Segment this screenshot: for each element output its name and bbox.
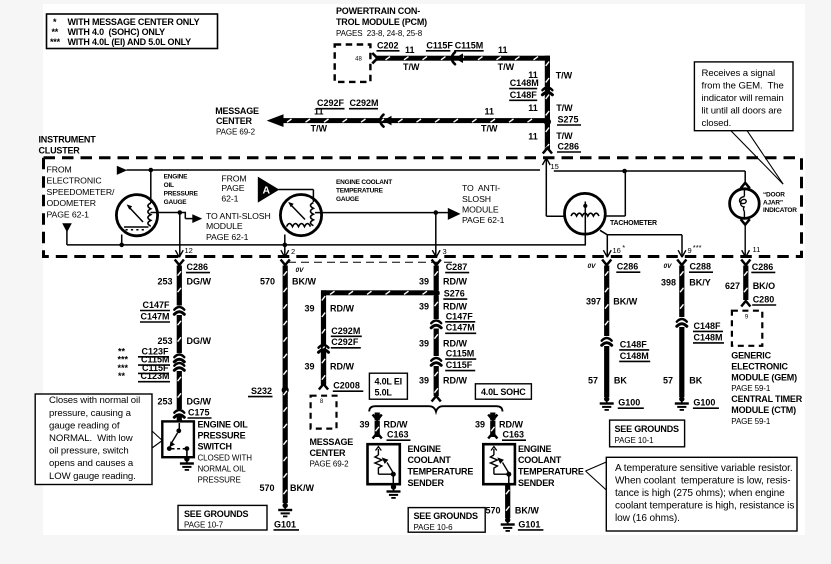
sender bottom (right) xyxy=(494,473,509,475)
svg-text:16: 16 xyxy=(613,246,621,255)
wire oil gauge output xyxy=(151,212,180,214)
svg-text:C123M: C123M xyxy=(140,371,169,381)
svg-text:SLOSH: SLOSH xyxy=(462,194,491,204)
splice S232 xyxy=(282,386,289,393)
see grounds 10-6 box xyxy=(408,508,485,533)
svg-text:closed.: closed. xyxy=(702,118,732,129)
svg-text:oil pressure, switch: oil pressure, switch xyxy=(49,446,129,457)
cluster bottom bus wire xyxy=(67,244,586,246)
svg-text:PAGE 10-1: PAGE 10-1 xyxy=(615,436,655,445)
svg-text:WITH MESSAGE CENTER ONLY: WITH MESSAGE CENTER ONLY xyxy=(68,17,200,27)
secondary thin dashed line xyxy=(288,261,456,263)
wire end flare at brace xyxy=(432,396,441,402)
wire tach top horizontal xyxy=(554,170,745,172)
svg-text:5.0L: 5.0L xyxy=(375,387,393,397)
wire 253 DG/W seg3 xyxy=(177,371,182,409)
svg-text:SEE GROUNDS: SEE GROUNDS xyxy=(615,424,680,434)
svg-text:MESSAGE: MESSAGE xyxy=(215,106,259,116)
wire 253 DG/W seg2 xyxy=(177,315,182,353)
wire S276 branch horizontal xyxy=(321,290,436,295)
svg-text:RD/W: RD/W xyxy=(330,362,354,372)
speedo return triangle xyxy=(62,223,72,232)
svg-text:C175: C175 xyxy=(188,407,210,417)
svg-text:S232: S232 xyxy=(251,386,272,396)
wire coolant output to pin 3 xyxy=(435,213,437,258)
switch dashed link xyxy=(172,448,186,450)
svg-text:0V: 0V xyxy=(664,263,673,270)
ground G101 (right sender) xyxy=(505,517,510,522)
svg-text:**: ** xyxy=(118,371,126,381)
message center arrow xyxy=(267,114,284,127)
svg-text:C115F: C115F xyxy=(426,40,453,50)
node oil output xyxy=(178,210,183,215)
door ajar lamp flare top xyxy=(741,183,750,189)
svg-text:570: 570 xyxy=(260,276,275,286)
oil gauge bottom terminal wire xyxy=(121,235,123,245)
svg-text:C115M: C115M xyxy=(455,40,484,50)
svg-text:C115F: C115F xyxy=(446,360,473,370)
svg-text:PRESSURE: PRESSURE xyxy=(198,431,246,441)
wire 39 RD/W seg4 xyxy=(434,366,439,396)
connector C163 flare pair (right) xyxy=(488,415,497,421)
svg-text:BK/W: BK/W xyxy=(515,505,539,515)
svg-text:SWITCH: SWITCH xyxy=(198,442,232,452)
wire coolant output xyxy=(315,212,436,214)
svg-text:T/W: T/W xyxy=(556,103,573,113)
connector flare (pin16) xyxy=(602,260,611,266)
svg-text:INSTRUMENT: INSTRUMENT xyxy=(39,134,97,144)
svg-text:C2008: C2008 xyxy=(333,381,360,391)
wire oil output to pin 12 xyxy=(179,213,181,258)
svg-text:C286: C286 xyxy=(187,262,209,272)
svg-text:C115M: C115M xyxy=(446,349,475,359)
svg-text:3: 3 xyxy=(443,247,447,256)
wire 570 BK/W seg1 xyxy=(283,266,288,386)
svg-text:C292F: C292F xyxy=(317,98,345,108)
ground G101 (pin2) xyxy=(283,503,288,508)
wire 627 BK/O xyxy=(743,266,748,301)
wire pin15 to tach xyxy=(546,215,565,217)
svg-text:39: 39 xyxy=(304,304,314,314)
svg-text:When coolant temperature is l: When coolant temperature is low, resis- xyxy=(615,475,791,486)
connector flare (pin11) xyxy=(741,260,750,266)
svg-text:39: 39 xyxy=(419,375,429,385)
coolant gauge coil right xyxy=(311,203,314,226)
svg-text:570: 570 xyxy=(259,483,274,493)
svg-text:11: 11 xyxy=(498,45,508,55)
engine oil pressure switch box xyxy=(162,421,194,457)
svg-text:T/W: T/W xyxy=(556,70,573,80)
svg-text:15: 15 xyxy=(551,162,559,171)
switch output wire xyxy=(186,449,188,458)
svg-text:PAGE 10-6: PAGE 10-6 xyxy=(414,523,454,532)
pin 16 arrow xyxy=(603,250,607,257)
connector C115 symbol (pin3) xyxy=(431,358,441,361)
svg-text:*: * xyxy=(622,243,625,252)
connector C163 flare pair (left) xyxy=(373,415,382,421)
svg-text:PAGE 62-1: PAGE 62-1 xyxy=(462,215,505,225)
pin 2 arrow xyxy=(281,250,285,257)
svg-text:CLOSED WITH: CLOSED WITH xyxy=(198,454,253,463)
temperature note box xyxy=(606,457,797,531)
svg-text:**: ** xyxy=(52,27,59,37)
connector flare (pin2) xyxy=(281,260,290,266)
svg-text:NORMAL OIL: NORMAL OIL xyxy=(198,465,247,474)
wire to door ajar lamp xyxy=(744,171,746,184)
svg-text:PAGE 69-2: PAGE 69-2 xyxy=(310,459,350,468)
oil switch note box xyxy=(35,394,152,485)
wire 39 RD/W seg3 xyxy=(434,329,439,357)
svg-text:T/W: T/W xyxy=(311,124,328,134)
svg-text:DG/W: DG/W xyxy=(187,397,212,407)
wire 11 T/W (PCM to corner) xyxy=(377,56,550,61)
svg-text:OIL: OIL xyxy=(164,182,174,189)
connector C148 symbol (pin16) xyxy=(602,338,612,341)
svg-text:11: 11 xyxy=(753,245,761,254)
svg-text:C202: C202 xyxy=(377,40,399,50)
svg-text:C292M: C292M xyxy=(331,326,360,336)
coolant sender box (left) xyxy=(368,444,400,484)
svg-text:C286: C286 xyxy=(617,262,639,272)
wire 11 T/W (to message center) xyxy=(278,118,547,123)
4.0L SOHC box xyxy=(475,384,531,399)
svg-text:Receives a signal: Receives a signal xyxy=(702,68,776,79)
anti-slosh arrow 1 xyxy=(192,214,202,223)
svg-text:GENERIC: GENERIC xyxy=(731,351,771,361)
svg-text:RD/W: RD/W xyxy=(443,339,467,349)
svg-text:ODOMETER: ODOMETER xyxy=(47,198,96,208)
svg-text:TACHOMETER: TACHOMETER xyxy=(610,220,657,227)
message center dashed box xyxy=(311,396,337,429)
svg-text:S275: S275 xyxy=(558,114,579,124)
svg-text:SENDER: SENDER xyxy=(518,478,555,488)
tachometer circle xyxy=(565,193,606,234)
anti-slosh arrow 2 xyxy=(448,208,461,220)
svg-text:C288: C288 xyxy=(690,262,712,272)
svg-text:INDICATOR: INDICATOR xyxy=(763,207,797,214)
svg-text:11: 11 xyxy=(405,45,415,55)
svg-text:DG/W: DG/W xyxy=(187,276,212,286)
coolant gauge bottom coil xyxy=(287,224,311,227)
svg-text:ENGINE: ENGINE xyxy=(408,444,442,454)
wire lamp to pin 11 xyxy=(744,226,746,258)
svg-text:0V: 0V xyxy=(296,267,305,274)
svg-text:BK: BK xyxy=(614,376,627,386)
svg-text:DG/W: DG/W xyxy=(187,336,212,346)
node coolant output xyxy=(434,210,439,215)
tach coil xyxy=(571,213,599,216)
svg-text:397: 397 xyxy=(586,297,601,307)
svg-text:PAGE 69-2: PAGE 69-2 xyxy=(216,128,256,137)
wire 39 RD/W branch seg2 xyxy=(321,353,326,384)
svg-text:A temperature sensitive variab: A temperature sensitive variable resisto… xyxy=(615,463,793,474)
GEM note pointer xyxy=(731,131,783,184)
node tach top xyxy=(622,169,627,174)
svg-text:PAGE 62-1: PAGE 62-1 xyxy=(206,232,249,242)
svg-text:C292F: C292F xyxy=(331,337,359,347)
temp note pointer xyxy=(586,462,607,471)
wire 57 BK (pin16) xyxy=(604,346,609,397)
sender resistor (right) xyxy=(491,447,497,451)
node bus/oil gauge xyxy=(119,243,124,248)
4.0L EI 5.0L box xyxy=(369,373,407,399)
wire 39 RD/W seg2 xyxy=(434,296,439,319)
svg-text:G101: G101 xyxy=(518,519,540,529)
sender wiper (left) xyxy=(387,463,393,474)
wire tach lower-right diagonal xyxy=(600,230,607,235)
wire to oil gauge coil xyxy=(150,170,152,203)
svg-text:tance is high (275 ohms); when: tance is high (275 ohms); when engine xyxy=(615,488,785,499)
wire 39 RD/W branch vertical xyxy=(321,290,326,385)
wire 253 DG/W seg1 xyxy=(177,266,182,306)
svg-text:4.0L EI: 4.0L EI xyxy=(375,377,402,387)
svg-text:PAGES 23-8, 24-8, 25-8: PAGES 23-8, 24-8, 25-8 xyxy=(336,29,423,38)
svg-text:253: 253 xyxy=(157,336,172,346)
wire branch right sender xyxy=(490,413,495,421)
svg-text:ELECTRONIC: ELECTRONIC xyxy=(47,176,102,186)
connector C292F/C292M symbol xyxy=(380,115,383,127)
svg-text:C148F: C148F xyxy=(620,339,648,349)
ground G100 (pin9) xyxy=(679,396,684,401)
oil pressure gauge circle xyxy=(116,195,157,236)
pin 15 arrow xyxy=(542,158,546,165)
svg-text:C292M: C292M xyxy=(350,98,379,108)
svg-text:PAGE 62-1: PAGE 62-1 xyxy=(47,209,90,219)
connector C148M/C148F symbol (top) xyxy=(542,88,552,91)
pin 12 arrow xyxy=(175,250,179,257)
svg-text:TROL MODULE (PCM): TROL MODULE (PCM) xyxy=(336,17,427,27)
svg-text:48: 48 xyxy=(355,57,362,63)
svg-text:TEMPERATURE: TEMPERATURE xyxy=(336,187,384,194)
svg-text:TO ANTI-SLOSH: TO ANTI-SLOSH xyxy=(206,211,271,221)
svg-text:C148M: C148M xyxy=(620,351,649,361)
connector C292 symbol (branch) xyxy=(319,345,329,348)
svg-text:0V: 0V xyxy=(588,263,597,270)
svg-text:CENTRAL TIMER: CENTRAL TIMER xyxy=(731,394,802,404)
coolant gauge needle xyxy=(290,204,305,220)
wire 398 BK/Y xyxy=(679,266,684,318)
wire speedo return vertical xyxy=(66,231,68,245)
wire 39 RD/W seg1 xyxy=(434,266,439,291)
sender bottom (left) xyxy=(378,473,393,475)
svg-text:MODULE (GEM): MODULE (GEM) xyxy=(731,373,797,383)
oil gauge bottom plate xyxy=(124,226,149,228)
svg-text:39: 39 xyxy=(419,339,429,349)
wire branch left sender xyxy=(375,413,380,421)
svg-text:Closes with normal oil: Closes with normal oil xyxy=(49,395,140,406)
svg-text:COOLANT: COOLANT xyxy=(518,455,562,465)
connector C286 flare (pin12) xyxy=(175,260,184,266)
wire jog to anti-slosh arrow xyxy=(180,212,186,214)
svg-text:BK/W: BK/W xyxy=(290,483,314,493)
svg-text:ELECTRONIC: ELECTRONIC xyxy=(731,362,788,372)
svg-text:TEMPERATURE: TEMPERATURE xyxy=(518,467,584,477)
svg-text:opens and causes a: opens and causes a xyxy=(49,458,134,469)
svg-text:GAUGE: GAUGE xyxy=(164,199,188,206)
svg-text:39: 39 xyxy=(419,276,429,286)
switch contact dot xyxy=(176,428,181,433)
svg-text:COOLANT: COOLANT xyxy=(408,455,452,465)
svg-text:PAGE: PAGE xyxy=(221,183,244,193)
svg-text:11: 11 xyxy=(528,132,538,142)
wire end flare C2008 xyxy=(319,384,328,390)
connector flare (pin9) xyxy=(677,260,686,266)
switch ground xyxy=(184,456,189,461)
svg-text:S276: S276 xyxy=(444,289,465,299)
wire to pin 9 xyxy=(607,234,682,236)
svg-text:BK: BK xyxy=(689,376,702,386)
svg-text:RD/W: RD/W xyxy=(499,419,523,429)
connector C115F/C115M symbol xyxy=(452,52,455,64)
door ajar lamp flare bottom xyxy=(741,219,750,225)
oil gauge coil xyxy=(148,203,151,226)
svg-text:BK/O: BK/O xyxy=(753,281,776,291)
door ajar lamp circle xyxy=(730,189,760,219)
svg-text:***: *** xyxy=(693,243,702,252)
svg-text:from the GEM. The: from the GEM. The xyxy=(702,81,784,92)
svg-text:A: A xyxy=(263,185,271,197)
coolant gauge bottom terminal xyxy=(284,235,286,258)
svg-text:WITH 4.0L (EI) AND 5.0L ONLY: WITH 4.0L (EI) AND 5.0L ONLY xyxy=(68,37,192,47)
svg-text:C147M: C147M xyxy=(140,311,169,321)
instrument cluster dashed border xyxy=(44,158,802,257)
svg-text:MESSAGE: MESSAGE xyxy=(310,437,354,447)
svg-text:WITH 4.0 (SOHC) ONLY: WITH 4.0 (SOHC) ONLY xyxy=(68,27,166,37)
svg-text:NORMAL. With low: NORMAL. With low xyxy=(49,433,133,444)
svg-text:gauge reading of: gauge reading of xyxy=(49,420,120,431)
see grounds 10-1 box xyxy=(610,420,685,447)
switch blade lower dot xyxy=(167,446,172,451)
svg-text:PRESSURE: PRESSURE xyxy=(198,476,241,485)
svg-text:TO ANTI-: TO ANTI- xyxy=(462,183,500,193)
svg-text:RD/W: RD/W xyxy=(443,375,467,385)
svg-text:C280: C280 xyxy=(753,294,775,304)
svg-text:G100: G100 xyxy=(618,398,640,408)
svg-text:627: 627 xyxy=(725,281,740,291)
sender resistor (left) xyxy=(376,447,382,451)
svg-text:G100: G100 xyxy=(693,398,715,408)
svg-text:ENGINE: ENGINE xyxy=(164,174,189,181)
svg-text:C147F: C147F xyxy=(142,300,170,310)
svg-text:T/W: T/W xyxy=(481,124,498,134)
switch contact stub xyxy=(178,423,180,431)
wire A to coolant gauge xyxy=(279,189,314,191)
svg-text:T/W: T/W xyxy=(498,62,515,72)
svg-text:C163: C163 xyxy=(503,430,525,440)
wire end flare C280 xyxy=(741,301,750,307)
svg-text:BK/Y: BK/Y xyxy=(689,278,711,288)
option split brace xyxy=(369,406,502,412)
svg-text:12: 12 xyxy=(185,246,193,255)
svg-text:C287: C287 xyxy=(446,262,468,272)
sender wiper (right) xyxy=(503,463,509,474)
svg-text:MODULE: MODULE xyxy=(206,221,243,231)
switch blade xyxy=(172,433,178,443)
svg-text:39: 39 xyxy=(304,362,314,372)
svg-text:2: 2 xyxy=(291,247,295,256)
svg-text:C148F: C148F xyxy=(510,90,538,100)
svg-text:C147F: C147F xyxy=(446,311,474,321)
GEM note box xyxy=(694,62,793,131)
svg-text:RD/W: RD/W xyxy=(384,419,408,429)
svg-text:“DOOR: “DOOR xyxy=(763,192,785,199)
tach needle dot xyxy=(583,204,587,208)
sender ground (left) xyxy=(391,484,396,489)
svg-text:***: *** xyxy=(50,37,61,47)
wire pin15 vertical xyxy=(545,160,547,217)
svg-text:T/W: T/W xyxy=(403,62,420,72)
svg-text:SENDER: SENDER xyxy=(408,478,445,488)
PCM dashed box xyxy=(335,45,371,82)
oil gauge needle xyxy=(129,207,144,223)
svg-text:C163: C163 xyxy=(387,430,409,440)
svg-text:570: 570 xyxy=(485,505,500,515)
svg-text:C148M: C148M xyxy=(694,332,723,342)
svg-text:ENGINE COOLANT: ENGINE COOLANT xyxy=(336,179,392,186)
svg-text:398: 398 xyxy=(661,278,676,288)
svg-text:39: 39 xyxy=(419,302,429,312)
pin 11 arrow xyxy=(742,250,746,257)
svg-text:indicator will remain: indicator will remain xyxy=(702,93,784,104)
svg-text:TEMPERATURE: TEMPERATURE xyxy=(408,467,474,477)
wire 570 BK/W seg2 xyxy=(283,385,288,503)
GEM dashed box xyxy=(732,311,762,346)
svg-text:PAGE 59-1: PAGE 59-1 xyxy=(731,384,771,393)
svg-text:FROM: FROM xyxy=(47,165,72,175)
svg-text:PAGE 10-7: PAGE 10-7 xyxy=(184,521,224,530)
ground G100 (pin16) xyxy=(604,396,609,401)
svg-text:BK/W: BK/W xyxy=(292,276,316,286)
see grounds 10-7 box xyxy=(178,505,267,530)
C286 end flare xyxy=(543,148,552,154)
svg-text:ENGINE: ENGINE xyxy=(518,444,552,454)
svg-text:CENTER: CENTER xyxy=(310,448,347,458)
svg-text:253: 253 xyxy=(157,397,172,407)
svg-text:62-1: 62-1 xyxy=(221,193,238,203)
svg-text:57: 57 xyxy=(588,376,598,386)
svg-text:pressure, causing a: pressure, causing a xyxy=(49,408,132,419)
svg-text:T/W: T/W xyxy=(556,131,573,141)
svg-text:POWERTRAIN CON-: POWERTRAIN CON- xyxy=(336,6,420,16)
svg-text:coolant temperature is high, r: coolant temperature is high, resistance … xyxy=(615,500,794,511)
svg-text:GAUGE: GAUGE xyxy=(336,196,360,203)
node bus/coolant gauge xyxy=(283,243,288,248)
svg-text:C148M: C148M xyxy=(510,78,539,88)
svg-text:SPEEDOMETER/: SPEEDOMETER/ xyxy=(47,187,116,197)
coolant gauge circle xyxy=(280,195,321,236)
wire 570 BK/W (right sender) xyxy=(505,484,510,518)
speedo feed arrow xyxy=(117,166,127,175)
wire 11 T/W vertical (corner to C286) xyxy=(545,56,550,150)
connector C147 symbol (pin3) xyxy=(431,321,441,324)
svg-text:FROM: FROM xyxy=(221,174,246,184)
svg-text:RD/W: RD/W xyxy=(443,276,467,286)
svg-text:11: 11 xyxy=(528,103,538,113)
svg-text:253: 253 xyxy=(157,276,172,286)
svg-text:C286: C286 xyxy=(558,141,580,151)
svg-text:MODULE: MODULE xyxy=(462,204,499,214)
svg-text:PRESSURE: PRESSURE xyxy=(164,191,199,198)
svg-text:BK/W: BK/W xyxy=(613,297,637,307)
wire 57 BK (pin9) xyxy=(679,327,684,397)
connector C147 symbol (pin12) xyxy=(174,307,184,310)
splice S275 xyxy=(544,118,551,125)
wire speedo feed (internal) xyxy=(127,169,541,171)
svg-text:MODULE (CTM): MODULE (CTM) xyxy=(731,405,796,415)
legend box xyxy=(47,14,218,49)
svg-text:RD/W: RD/W xyxy=(330,304,354,314)
wire coolant output to arrow xyxy=(436,212,448,214)
